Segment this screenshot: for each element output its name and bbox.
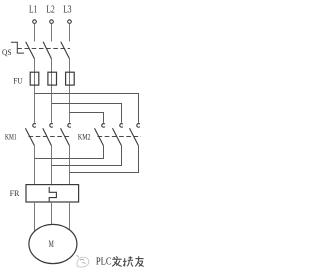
switch QS blade pole2 <box>43 42 51 59</box>
watermark character 烧 <box>123 256 133 266</box>
thermal relay FR heater element <box>49 187 56 202</box>
svg-text:FU: FU <box>13 76 23 86</box>
terminal L3 <box>68 20 72 24</box>
contactor KM1 contact pole3 arc <box>68 124 71 128</box>
terminal L1 <box>33 20 37 24</box>
wire QS to fuse FU pole2 and through to KM1 contact <box>51 59 53 123</box>
switch QS handle bracket <box>11 42 24 53</box>
fuse FU pole1 <box>30 72 39 85</box>
wire KM1 pole1 to FR <box>34 146 36 185</box>
wire QS to fuse FU pole3 and through to KM1 contact <box>69 59 71 123</box>
thermal relay FR box <box>26 185 79 202</box>
fuse FU pole2 <box>48 72 57 85</box>
wire FR to motor phase2 <box>51 202 53 226</box>
svg-text:L2: L2 <box>46 5 54 16</box>
contactor KM1 contact pole2 arc <box>50 124 53 128</box>
svg-text:M: M <box>49 240 55 250</box>
contactor KM2 contact pole1 blade <box>95 128 104 146</box>
terminal L2 <box>50 20 54 24</box>
fuse FU pole3 <box>66 72 75 85</box>
switch QS blade pole3 <box>61 42 70 59</box>
contactor KM2 linkage dashed line <box>98 136 142 138</box>
wire KM2 pole3 return to node C <box>70 146 139 173</box>
switch QS linkage dashed line <box>17 48 70 50</box>
wire KM1 pole3 to FR <box>69 146 71 185</box>
wire FR to motor phase1 <box>34 202 36 233</box>
wire FR to motor phase3 <box>69 202 71 233</box>
svg-text:KM1: KM1 <box>5 132 17 142</box>
contactor KM1 contact pole2 blade <box>43 128 52 146</box>
svg-text:QS: QS <box>2 47 12 57</box>
wire KM2 pole2 return to node B <box>52 146 122 166</box>
watermark character 友 <box>135 256 144 266</box>
wire L3 to QS <box>69 24 71 42</box>
watermark logo sketch <box>77 255 89 267</box>
svg-text:PLC: PLC <box>96 257 112 268</box>
contactor KM2 contact pole1 arc <box>102 124 105 128</box>
contactor KM2 contact pole2 arc <box>120 124 123 128</box>
contactor KM1 contact pole1 blade <box>25 128 34 146</box>
contactor KM2 contact pole3 blade <box>130 128 139 146</box>
watermark character 发 <box>112 256 122 266</box>
contactor KM1 linkage dashed line <box>29 136 72 138</box>
svg-text:FR: FR <box>10 188 20 198</box>
wire L1 to QS <box>34 24 36 42</box>
wire branch L3 to KM2 pole1 <box>70 113 104 123</box>
wire branch L1 to KM2 pole3 <box>35 94 139 123</box>
contactor KM1 contact pole3 blade <box>61 128 70 146</box>
contactor KM1 contact pole1 arc <box>33 124 36 128</box>
switch QS blade pole1 <box>26 42 35 59</box>
contactor KM2 contact pole3 arc <box>137 124 140 128</box>
wire KM1 pole2 to FR <box>51 146 53 185</box>
svg-text:KM2: KM2 <box>78 132 91 142</box>
wire branch L2 to KM2 pole2 <box>52 104 122 123</box>
svg-text:L3: L3 <box>63 5 71 16</box>
svg-text:L1: L1 <box>29 5 37 16</box>
motor M circle <box>29 224 77 263</box>
wire QS to fuse FU pole1 and through to KM1 contact <box>34 59 36 123</box>
contactor KM2 contact pole2 blade <box>113 128 122 146</box>
wire KM2 pole1 return to node A <box>35 146 104 159</box>
wire L2 to QS <box>51 24 53 42</box>
